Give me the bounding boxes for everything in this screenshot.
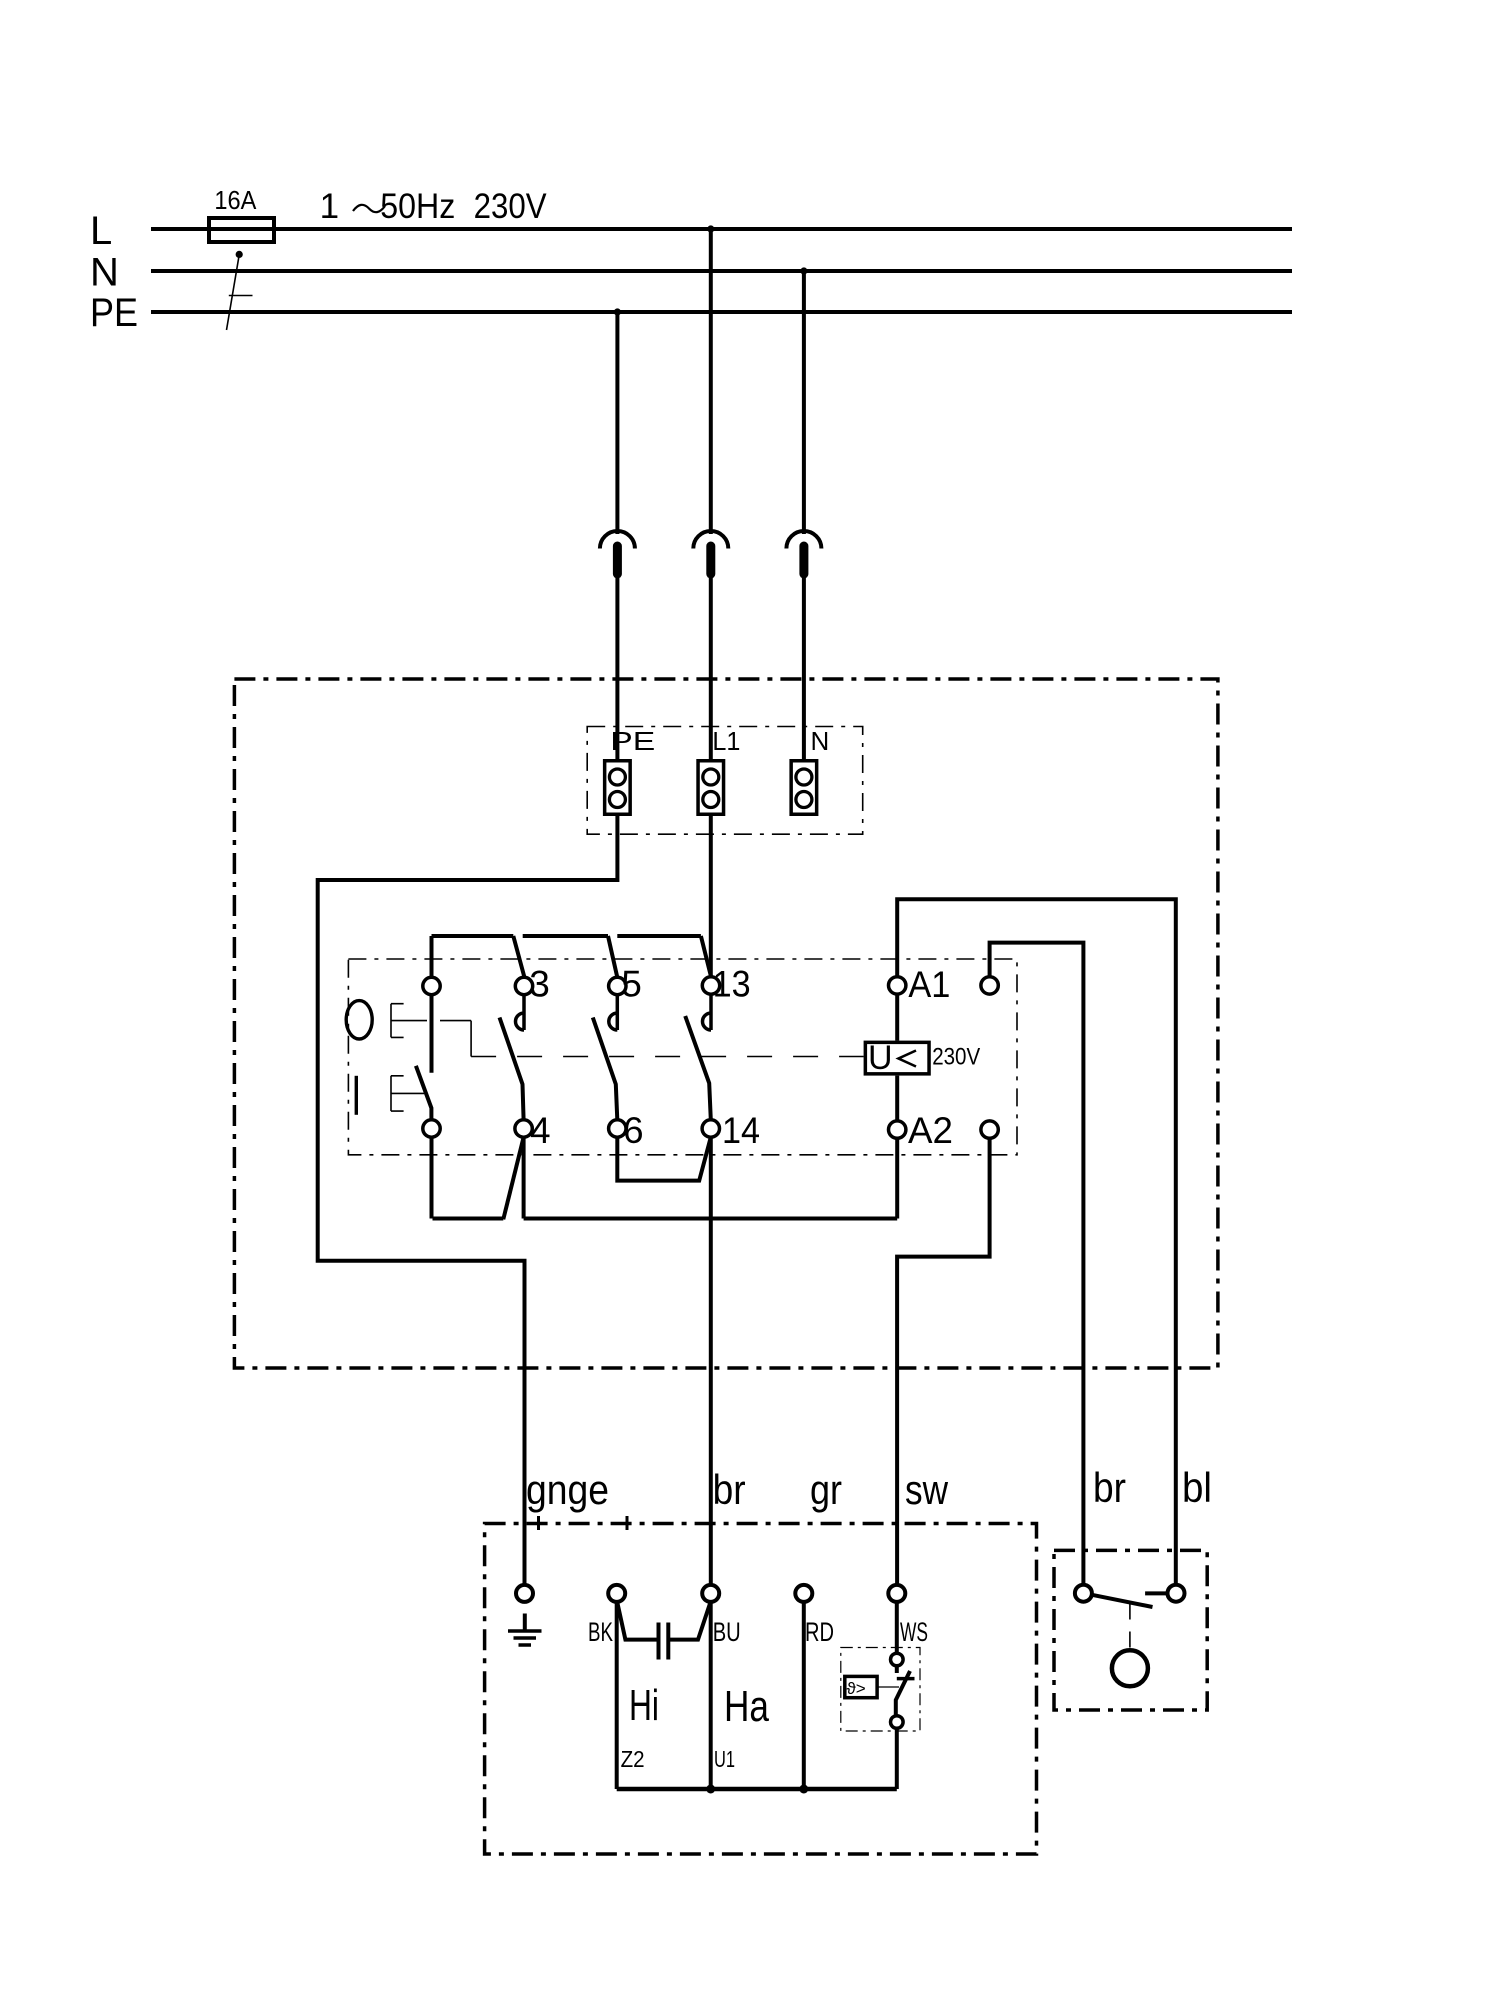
svg-text:L: L — [90, 209, 112, 253]
svg-text:BK: BK — [588, 1617, 613, 1647]
svg-text:PE: PE — [90, 291, 138, 335]
svg-text:5: 5 — [621, 964, 642, 1005]
svg-text:50Hz: 50Hz — [380, 187, 455, 226]
svg-text:br: br — [1093, 1464, 1126, 1511]
svg-text:230V: 230V — [932, 1043, 980, 1070]
svg-text:N: N — [90, 251, 119, 295]
svg-text:L1: L1 — [712, 726, 740, 756]
svg-text:4: 4 — [530, 1110, 551, 1151]
svg-text:U1: U1 — [714, 1746, 735, 1772]
svg-text:U: U — [868, 1039, 893, 1077]
svg-text:14: 14 — [722, 1110, 760, 1151]
svg-text:Z2: Z2 — [621, 1746, 645, 1772]
svg-text:13: 13 — [713, 964, 751, 1005]
svg-text:3: 3 — [529, 964, 550, 1005]
svg-text:A1: A1 — [908, 964, 950, 1005]
svg-text:A2: A2 — [908, 1110, 953, 1151]
svg-text:gnge: gnge — [526, 1466, 609, 1513]
svg-text:bl: bl — [1182, 1464, 1212, 1511]
svg-text:WS: WS — [900, 1617, 928, 1647]
svg-text:Ha: Ha — [724, 1682, 769, 1731]
svg-text:PE: PE — [610, 726, 655, 756]
svg-text:230V: 230V — [474, 187, 548, 226]
svg-text:sw: sw — [905, 1466, 949, 1513]
svg-text:N: N — [811, 726, 830, 756]
svg-text:gr: gr — [810, 1466, 842, 1513]
svg-text:ϑ>: ϑ> — [847, 1679, 866, 1698]
svg-text:BU: BU — [713, 1617, 741, 1647]
svg-text:br: br — [713, 1466, 746, 1513]
svg-text:1: 1 — [320, 187, 339, 226]
svg-text:6: 6 — [623, 1110, 644, 1151]
svg-text:16A: 16A — [214, 185, 257, 215]
svg-text:RD: RD — [805, 1617, 834, 1647]
svg-text:Hi: Hi — [629, 1681, 659, 1730]
